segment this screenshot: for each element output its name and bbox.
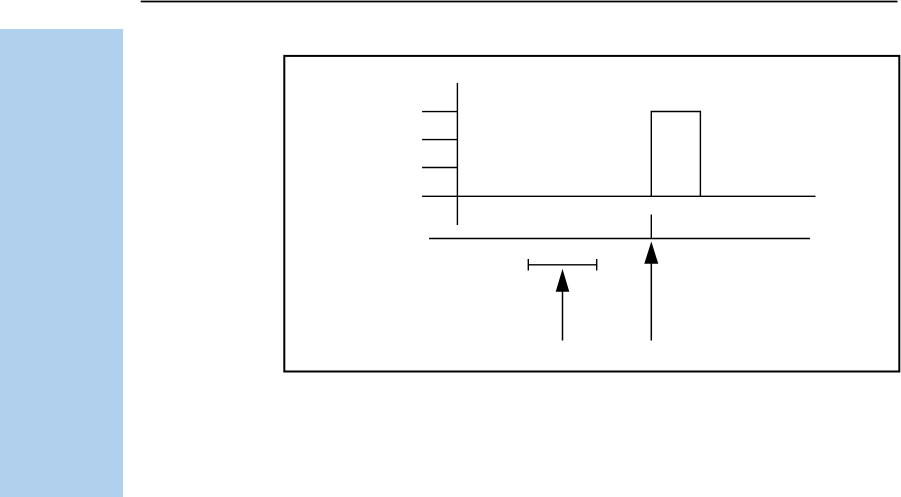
left arrow shaft — [562, 291, 564, 341]
right arrow shaft — [650, 263, 652, 341]
header rule — [141, 1, 898, 3]
bracket span — [528, 264, 596, 266]
sidebar band — [0, 29, 123, 497]
reference line — [429, 238, 810, 240]
baseline axis — [422, 195, 815, 197]
sync tick — [650, 215, 652, 239]
tick 1 — [422, 111, 457, 113]
right arrow head — [644, 242, 658, 264]
left arrow head — [556, 269, 570, 292]
bracket right end — [596, 259, 598, 271]
pulse — [651, 112, 700, 197]
bracket left end — [527, 259, 529, 271]
vertical axis — [456, 83, 458, 225]
tick 3 — [422, 167, 457, 169]
figure frame — [284, 56, 899, 372]
tick 2 — [422, 139, 457, 141]
